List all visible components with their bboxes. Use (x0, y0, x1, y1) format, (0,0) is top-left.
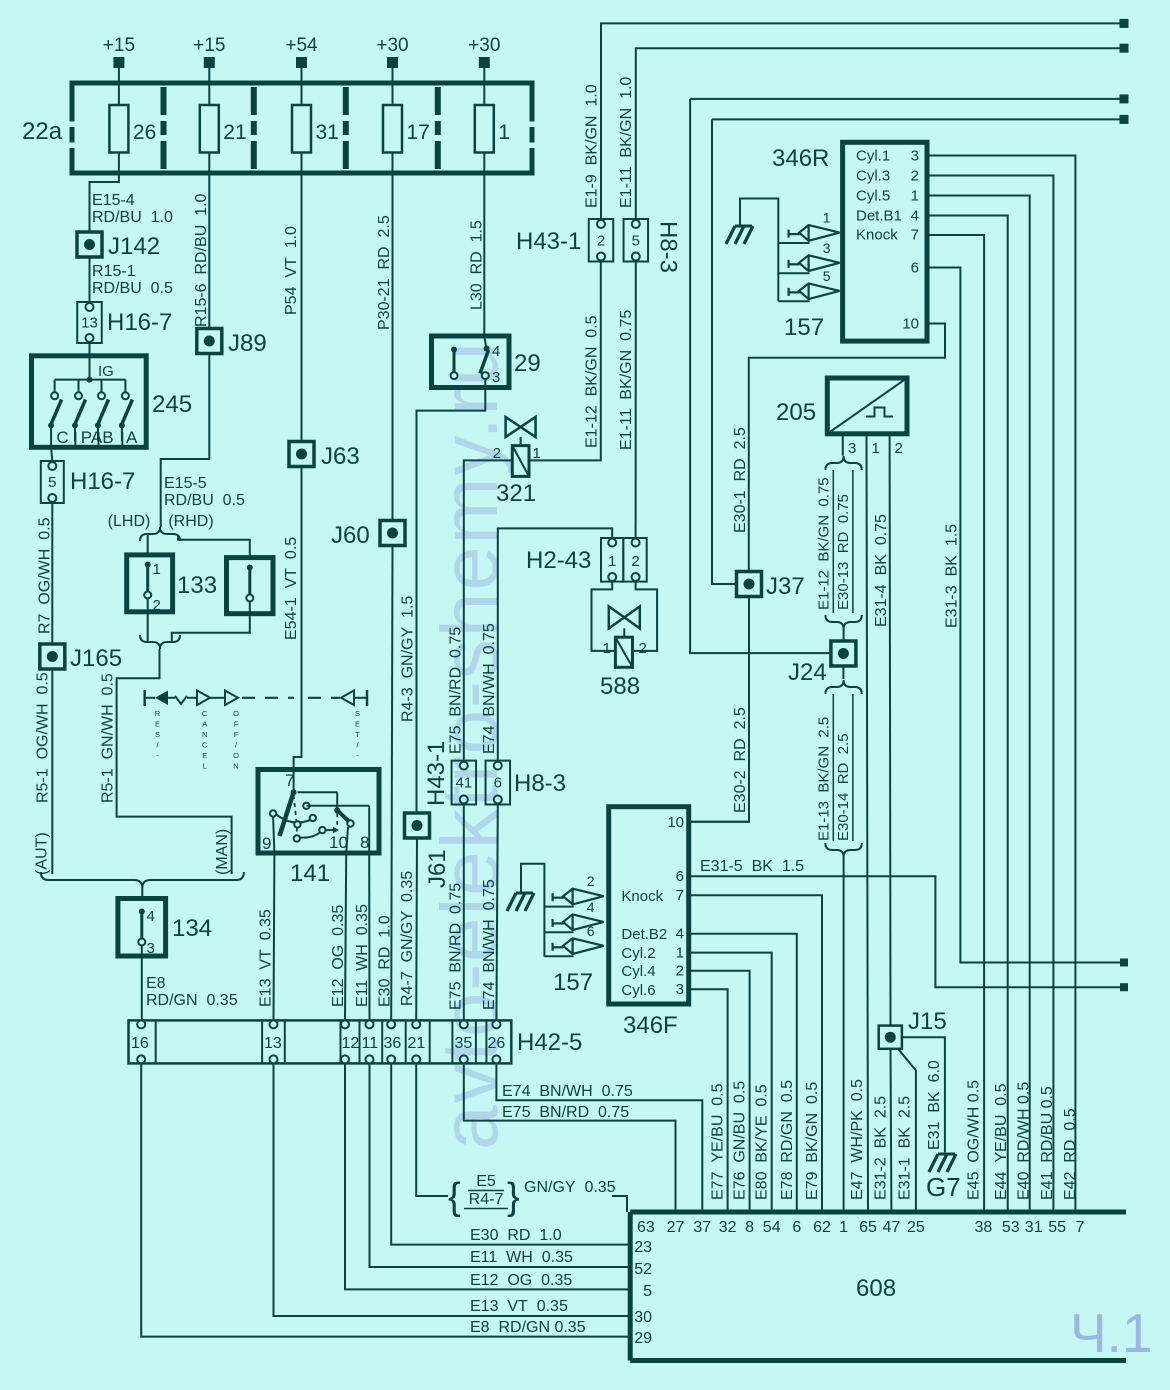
svg-text:65: 65 (859, 1219, 877, 1236)
svg-text:41: 41 (455, 775, 472, 792)
injectors 157 right bank (726, 199, 840, 342)
junction J165 (40, 644, 122, 672)
svg-text:3: 3 (848, 440, 856, 457)
svg-text:27: 27 (667, 1219, 685, 1236)
svg-text:245: 245 (152, 391, 192, 418)
wire E1-11 BK/GN 0.75 (618, 262, 636, 540)
svg-text:3: 3 (911, 147, 919, 164)
svg-text:2: 2 (895, 440, 903, 457)
wire E74 BN/WH 0.75 lower (481, 805, 498, 1021)
wire E30-2 RD 2.5 (689, 597, 749, 822)
svg-text:RD/GN 0.35: RD/GN 0.35 (146, 992, 238, 1009)
svg-text:O: O (233, 709, 239, 718)
svg-text:157: 157 (553, 969, 593, 996)
svg-text:10: 10 (329, 833, 348, 852)
svg-text:141: 141 (290, 860, 330, 887)
svg-text:E31-5 BK 1.5: E31-5 BK 1.5 (700, 858, 804, 875)
wire 346R pin3 E42 (927, 156, 1075, 1213)
svg-text:157: 157 (784, 314, 824, 341)
svg-text:J24: J24 (788, 659, 827, 686)
svg-text:2: 2 (597, 232, 605, 249)
svg-text:E74 BN/WH 0.75: E74 BN/WH 0.75 (481, 879, 498, 1010)
brace AUT/MAN (41, 872, 244, 899)
svg-text:Cyl.1: Cyl.1 (856, 147, 890, 164)
wire 346R pin10 E30-1 RD 2.5 (732, 324, 945, 572)
svg-text:T: T (355, 730, 360, 739)
svg-text:E12 OG 0.35: E12 OG 0.35 (330, 905, 347, 1007)
svg-text:E5: E5 (476, 1173, 496, 1190)
svg-text:Det.B1: Det.B1 (856, 207, 902, 224)
svg-text:1: 1 (823, 210, 831, 226)
wire terminal line 3 to J24 (690, 94, 1128, 653)
svg-text:+54: +54 (285, 35, 318, 56)
svg-text:Cyl.2: Cyl.2 (621, 945, 655, 962)
wire 346R pin2 E41 (927, 176, 1053, 1213)
svg-text:1: 1 (676, 944, 684, 961)
svg-text:21: 21 (223, 121, 246, 144)
svg-text:E75 BN/RD 0.75: E75 BN/RD 0.75 (502, 1104, 629, 1121)
svg-text:R4-7: R4-7 (469, 1191, 504, 1208)
svg-text:1: 1 (911, 187, 919, 204)
injectors 157 left bank (507, 864, 604, 996)
svg-text:5: 5 (823, 268, 831, 284)
cruise control switch 141 (258, 770, 379, 888)
svg-text:E75 BN/RD 0.75: E75 BN/RD 0.75 (448, 627, 465, 754)
svg-text:2: 2 (639, 640, 647, 657)
svg-text:55: 55 (1048, 1219, 1066, 1236)
svg-text:30: 30 (634, 1309, 652, 1326)
connector H8-3 pin 5 (624, 219, 682, 273)
svg-text:E45 OG/WH 0.5: E45 OG/WH 0.5 (965, 1080, 982, 1200)
svg-text:2: 2 (676, 963, 684, 980)
svg-text:J165: J165 (70, 645, 122, 672)
svg-text:H42-5: H42-5 (517, 1029, 582, 1056)
svg-text:+30: +30 (468, 35, 500, 56)
svg-text:J142: J142 (108, 233, 160, 260)
svg-text:E47 WH/PK 0.5: E47 WH/PK 0.5 (849, 1079, 866, 1200)
svg-text:H43-1: H43-1 (423, 741, 450, 806)
wire pair E1-12/E30-13 labels (815, 456, 862, 641)
svg-text:(LHD): (LHD) (108, 513, 151, 530)
svg-text:1: 1 (608, 553, 616, 570)
svg-text:346R: 346R (772, 145, 829, 172)
wire E8 RD/GN 0.35 (142, 946, 238, 1021)
svg-text:E30 RD 1.0: E30 RD 1.0 (377, 915, 394, 1007)
svg-text:1: 1 (872, 440, 880, 457)
svg-text:Cyl.4: Cyl.4 (621, 963, 655, 980)
svg-text:17: 17 (407, 121, 430, 144)
svg-text:3: 3 (492, 369, 500, 386)
svg-text:53: 53 (1002, 1219, 1020, 1236)
svg-text:E30-2 RD 2.5: E30-2 RD 2.5 (732, 707, 749, 813)
wire E1-11 BK/GN 1.0 to terminal (618, 44, 1129, 219)
svg-text:2: 2 (587, 873, 595, 889)
wire to ignition switch (89, 343, 91, 356)
wire R5-1 OG/WH 0.5 (AUT) (34, 668, 53, 875)
connector H16-7 pin 13 (77, 302, 172, 343)
svg-text:P30-21 RD 2.5: P30-21 RD 2.5 (376, 215, 393, 330)
svg-text:RD/BU 0.5: RD/BU 0.5 (92, 280, 173, 297)
svg-text:E1-11 BK/GN 1.0: E1-11 BK/GN 1.0 (618, 77, 635, 208)
wire E54-1 VT 0.5 (283, 467, 302, 771)
svg-text:E15-5: E15-5 (164, 475, 207, 492)
svg-text:4: 4 (492, 343, 500, 360)
valve 321 solenoid (493, 417, 541, 507)
svg-text:2: 2 (911, 167, 919, 184)
wire E31-5 BK 1.5 to terminal (689, 858, 1128, 991)
svg-text:C: C (202, 709, 208, 718)
supply terminal +30 (376, 35, 408, 105)
wire E30 RD 1.0 from J60 (377, 546, 394, 1021)
wire L30 RD 1.5 (469, 173, 486, 336)
svg-text:E31-4 BK 0.75: E31-4 BK 0.75 (873, 514, 890, 627)
svg-text:E1-12 BK/GN 0.5: E1-12 BK/GN 0.5 (584, 315, 601, 448)
supply terminal +54 (285, 35, 318, 105)
wire R15-1 RD/BU 0.5 (90, 257, 174, 302)
svg-text:11: 11 (362, 1035, 379, 1052)
connector H16-7 pin 5 (41, 461, 136, 503)
svg-text:R15-1: R15-1 (92, 263, 136, 280)
fuse 17 (383, 105, 430, 173)
wire 133 RHD down (172, 602, 250, 642)
svg-text:26: 26 (133, 121, 156, 144)
svg-text:E31-3 BK 1.5: E31-3 BK 1.5 (944, 524, 961, 628)
svg-text:(RHD): (RHD) (168, 513, 213, 530)
svg-text:O: O (233, 751, 239, 760)
wire 346F pin2 E76 (689, 971, 750, 1212)
svg-text:E54-1 VT 0.5: E54-1 VT 0.5 (283, 537, 300, 640)
fuse 31 (292, 105, 339, 173)
svg-text:(AUT): (AUT) (34, 832, 51, 875)
svg-text:J37: J37 (766, 573, 805, 600)
svg-text:25: 25 (907, 1219, 925, 1236)
svg-text:RD/BU 0.5: RD/BU 0.5 (164, 492, 245, 509)
svg-text:E80 BK/YE 0.5: E80 BK/YE 0.5 (754, 1084, 771, 1200)
svg-text:R5-1 GN/WH 0.5: R5-1 GN/WH 0.5 (100, 673, 117, 803)
svg-text:32: 32 (719, 1219, 737, 1236)
svg-text:29: 29 (514, 350, 541, 377)
wire E12 OG 0.35 to pin5 (345, 1063, 630, 1289)
svg-text:E1-13 BK/GN 2.5: E1-13 BK/GN 2.5 (815, 717, 832, 841)
svg-text:23: 23 (634, 1239, 652, 1256)
svg-text:E15-4: E15-4 (92, 192, 135, 209)
svg-text:GN/GY 0.35: GN/GY 0.35 (524, 1179, 616, 1196)
fuse 26 (109, 105, 156, 173)
junction J24 (788, 641, 856, 686)
svg-text:E8: E8 (146, 975, 166, 992)
wire E11 WH 0.35 (354, 853, 371, 1020)
svg-text:8: 8 (745, 1219, 754, 1236)
svg-text:E41 RD/BU 0.5: E41 RD/BU 0.5 (1039, 1086, 1056, 1200)
wire E74 BN/WH upper (481, 528, 612, 760)
wire E8 RD/GN 0.35 to pin29 (141, 1063, 630, 1336)
svg-text:608: 608 (856, 1275, 896, 1302)
wire E1-9 BK/GN 1.0 to terminal (584, 19, 1129, 219)
wire E11 WH 0.35 to pin52 (370, 1063, 631, 1267)
svg-text:G7: G7 (926, 1172, 961, 1202)
wire P30-21 RD 2.5 (376, 173, 393, 521)
svg-text:31: 31 (316, 121, 339, 144)
wire 346F pin1 E80 (689, 953, 772, 1212)
wire 245 C to H16-7 (50, 441, 52, 447)
ignition module 205 (776, 378, 907, 1212)
svg-text:6: 6 (494, 775, 502, 792)
svg-text:E: E (202, 751, 207, 760)
svg-text:N: N (233, 762, 238, 771)
wire 346F pin7 E79 (689, 895, 822, 1212)
svg-text:4: 4 (147, 908, 155, 925)
svg-text:E74 BN/WH 0.75: E74 BN/WH 0.75 (481, 623, 498, 754)
svg-text:E75 BN/RD 0.75: E75 BN/RD 0.75 (448, 883, 465, 1010)
brace LHD/RHD bottom (140, 635, 180, 660)
svg-text:21: 21 (408, 1035, 426, 1052)
svg-text:1: 1 (153, 561, 161, 578)
svg-text:26: 26 (488, 1035, 506, 1052)
svg-text:5: 5 (643, 1283, 652, 1300)
wire E1-12 BK/GN 0.5 (529, 262, 601, 461)
valve 588 solenoid (600, 606, 647, 700)
svg-text:133: 133 (177, 572, 217, 599)
svg-text:E78 RD/GN 0.5: E78 RD/GN 0.5 (779, 1080, 796, 1200)
svg-text:E76 GN/BU 0.5: E76 GN/BU 0.5 (732, 1081, 749, 1200)
svg-text:5: 5 (48, 474, 56, 491)
ground G7 (926, 1154, 961, 1202)
svg-text:R: R (155, 709, 161, 718)
junction J37 (737, 572, 805, 601)
connector H8-3 pin 6 (486, 761, 566, 805)
wire H2-43 pin1 to valve 588 (592, 582, 616, 651)
wire E75 BN/RD 0.75 to pin27 (464, 1063, 676, 1212)
svg-text:B: B (102, 428, 113, 447)
svg-text:54: 54 (763, 1219, 781, 1236)
button labels RES CANCEL OFF/ON SET (155, 709, 360, 771)
svg-text:134: 134 (172, 915, 212, 942)
svg-text:9: 9 (262, 834, 271, 853)
fuse box 22a (22, 83, 535, 173)
switch 134 (118, 899, 212, 958)
svg-text:PA: PA (81, 428, 103, 447)
svg-text:12: 12 (342, 1035, 360, 1052)
svg-text:37: 37 (693, 1219, 711, 1236)
svg-text:346F: 346F (623, 1012, 678, 1039)
svg-text:L30 RD 1.5: L30 RD 1.5 (469, 220, 486, 310)
wire terminal line 4 to J37 (712, 115, 1129, 584)
svg-text:{: { (448, 1176, 461, 1218)
svg-text:H16-7: H16-7 (70, 468, 135, 495)
svg-text:E40 RD/WH 0.5: E40 RD/WH 0.5 (1016, 1082, 1033, 1200)
svg-text:J89: J89 (228, 330, 267, 357)
connector H42-5 (129, 1020, 583, 1063)
svg-text:H16-7: H16-7 (107, 309, 172, 336)
wire E13 VT 0.35 to pin30 (274, 1063, 631, 1316)
svg-text:R4-7 GN/GY 0.35: R4-7 GN/GY 0.35 (399, 871, 416, 1006)
wire H2-43 pin2 to valve 588 (633, 582, 658, 651)
svg-text:52: 52 (634, 1261, 652, 1278)
svg-text:E30-1 RD 2.5: E30-1 RD 2.5 (732, 427, 749, 533)
svg-text:(MAN): (MAN) (214, 829, 231, 875)
svg-text:1: 1 (839, 1219, 848, 1236)
wire E31-1 BK 2.5 (897, 1049, 916, 1212)
svg-text:C: C (202, 741, 208, 750)
svg-text:588: 588 (600, 673, 640, 700)
svg-text:3: 3 (676, 981, 684, 998)
svg-text:+15: +15 (103, 35, 135, 56)
junction J89 (197, 329, 267, 358)
svg-text:E13 VT 0.35: E13 VT 0.35 (258, 909, 275, 1007)
svg-text:4: 4 (911, 207, 919, 224)
svg-text:R7 OG/WH 0.5: R7 OG/WH 0.5 (37, 517, 54, 634)
svg-text:4: 4 (587, 899, 595, 915)
junction J15 (879, 1008, 947, 1212)
wire R15-6 RD/BU 1.0 (193, 173, 210, 329)
svg-text:E44 YE/BU 0.5: E44 YE/BU 0.5 (993, 1083, 1010, 1200)
fuse 1 (475, 105, 510, 173)
svg-text:E31-2 BK 2.5: E31-2 BK 2.5 (873, 1096, 890, 1200)
junction J63 (289, 442, 360, 471)
svg-text:16: 16 (131, 1035, 149, 1052)
svg-text:63: 63 (637, 1219, 655, 1236)
svg-text:Cyl.6: Cyl.6 (621, 982, 655, 999)
svg-text:E1-9 BK/GN 1.0: E1-9 BK/GN 1.0 (584, 84, 601, 208)
svg-text:J60: J60 (331, 522, 370, 549)
svg-text:H8-3: H8-3 (655, 221, 682, 273)
svg-text:5: 5 (632, 232, 640, 249)
supply terminal +30 (468, 35, 500, 105)
svg-text:}: } (507, 1176, 520, 1218)
svg-text:E30 RD 1.0: E30 RD 1.0 (470, 1227, 562, 1244)
ignition switch 245 (32, 356, 193, 448)
svg-text:E11 WH 0.35: E11 WH 0.35 (470, 1249, 573, 1266)
wire R4-3 GN/GY 1.5 (400, 379, 486, 813)
svg-text:J63: J63 (321, 443, 360, 470)
svg-text:E1-12 BK/GN 0.75: E1-12 BK/GN 0.75 (815, 477, 832, 610)
svg-text:E79 BK/GN 0.5: E79 BK/GN 0.5 (804, 1082, 821, 1200)
svg-text:E42 RD 0.5: E42 RD 0.5 (1062, 1108, 1079, 1200)
connector H2-43 (526, 538, 647, 582)
svg-text:S: S (155, 730, 160, 739)
svg-text:F: F (234, 730, 239, 739)
svg-text:62: 62 (813, 1219, 831, 1236)
ignition output stage 346R (772, 142, 927, 341)
svg-text:13: 13 (81, 315, 98, 332)
relay 29 (432, 336, 541, 388)
junction J142 (77, 232, 160, 260)
svg-text:S: S (355, 709, 360, 718)
brace LHD/RHD top (140, 522, 180, 541)
svg-text:8: 8 (360, 833, 369, 852)
svg-text:E1-11 BK/GN 0.75: E1-11 BK/GN 0.75 (618, 310, 635, 450)
svg-text:E: E (155, 720, 160, 729)
svg-text:Knock: Knock (856, 227, 898, 244)
svg-text:6: 6 (792, 1219, 801, 1236)
svg-text:Det.B2: Det.B2 (621, 926, 667, 943)
wire E5/R4-7 GN/GY 0.35 to pin63 (416, 1063, 627, 1218)
wire E15-5 RD/BU 0.5 (161, 354, 245, 523)
svg-text:6: 6 (911, 260, 919, 277)
svg-text:Ч.1: Ч.1 (1070, 1302, 1153, 1364)
svg-text:H8-3: H8-3 (514, 770, 566, 797)
ignition output stage 346F (609, 807, 689, 1039)
svg-text:29: 29 (634, 1330, 652, 1347)
svg-text:H43-1: H43-1 (516, 228, 581, 255)
wire pair E1-13/E30-14 labels (815, 666, 862, 1212)
svg-text:1: 1 (603, 640, 611, 657)
junction J61 (405, 813, 452, 888)
wire 346R pin1 E40 (927, 196, 1030, 1213)
wire 346R pin4 E44 (927, 216, 1008, 1213)
wire E31 BK 6.0 to ground G7 (902, 1037, 945, 1152)
svg-text:Cyl.5: Cyl.5 (856, 187, 890, 204)
svg-text:R5-1 OG/WH 0.5: R5-1 OG/WH 0.5 (35, 672, 52, 803)
connector H43-1 pin 41 (423, 741, 476, 806)
wire E30 RD 1.0 to pin23 (391, 1063, 630, 1244)
svg-text:E8 RD/GN 0.35: E8 RD/GN 0.35 (470, 1319, 586, 1336)
wire R7 OG/WH 0.5 (37, 503, 54, 644)
svg-text:10: 10 (902, 316, 919, 333)
svg-text:N: N (202, 730, 207, 739)
labels of ECU input wires (710, 1080, 1079, 1200)
wire to connector 133 LHD (147, 534, 149, 556)
svg-text:E30-13 RD 0.75: E30-13 RD 0.75 (835, 494, 852, 610)
wire 346R pin6 E31-3 BK 1.5 (927, 268, 1128, 967)
svg-text:6: 6 (587, 923, 595, 939)
svg-text:38: 38 (975, 1219, 993, 1236)
engine control unit 608 (630, 1212, 1126, 1361)
wire 321 pin2 to E75 (464, 460, 513, 760)
svg-text:Cyl.3: Cyl.3 (856, 167, 890, 184)
svg-text:R15-6 RD/BU 1.0: R15-6 RD/BU 1.0 (193, 194, 210, 327)
svg-text:E12 OG 0.35: E12 OG 0.35 (470, 1272, 572, 1289)
svg-text:3: 3 (147, 940, 155, 957)
wire 346F pin3 E77 (689, 989, 728, 1212)
fuse 21 (200, 105, 247, 173)
svg-text:F: F (234, 720, 239, 729)
svg-text:A: A (126, 428, 138, 447)
svg-text:IG: IG (98, 363, 114, 380)
svg-text:31: 31 (1025, 1219, 1043, 1236)
svg-text:7: 7 (1076, 1219, 1085, 1236)
wire to connector 133 RHD (178, 536, 250, 559)
wire 133 LHD down (147, 599, 149, 642)
supply terminal +15 (193, 35, 225, 105)
junction J60 (331, 521, 405, 550)
cruise control button diode row (145, 690, 367, 706)
svg-text:7: 7 (911, 227, 919, 244)
svg-text:Knock: Knock (621, 888, 663, 905)
wire E12 OG 0.35 (330, 853, 347, 1020)
wire R4-7 GN/GY 0.35 (399, 838, 417, 1020)
wire P54 VT 1.0 (283, 173, 302, 442)
svg-text:13: 13 (264, 1035, 282, 1052)
svg-text:+30: +30 (376, 35, 408, 56)
wire E13 VT 0.35 (258, 853, 275, 1020)
svg-text:3: 3 (823, 240, 831, 256)
wire E15-4 RD/BU 1.0 (90, 173, 174, 233)
svg-text:E11 WH 0.35: E11 WH 0.35 (354, 904, 371, 1007)
svg-text:E30-14 RD 2.5: E30-14 RD 2.5 (835, 733, 852, 841)
svg-text:E77 YE/BU 0.5: E77 YE/BU 0.5 (710, 1083, 727, 1200)
connector 133 LHD (127, 555, 217, 614)
svg-text:+15: +15 (193, 35, 225, 56)
wire 346R pin7 E45 (927, 235, 984, 1212)
svg-text:E31 BK 6.0: E31 BK 6.0 (926, 1060, 943, 1150)
svg-text:1: 1 (498, 121, 510, 144)
svg-text:321: 321 (496, 480, 536, 507)
supply terminal +15 (103, 35, 135, 105)
svg-text:7: 7 (676, 887, 684, 904)
svg-text:10: 10 (667, 814, 684, 831)
svg-text:E31-1 BK 2.5: E31-1 BK 2.5 (897, 1096, 914, 1200)
